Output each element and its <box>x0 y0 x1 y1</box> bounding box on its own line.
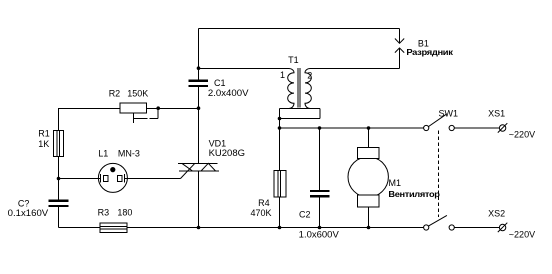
svg-text:~220V: ~220V <box>509 129 535 139</box>
svg-text:В1: В1 <box>418 39 429 49</box>
svg-text:SW1: SW1 <box>439 108 459 118</box>
svg-text:R4: R4 <box>258 198 270 208</box>
svg-text:2: 2 <box>307 70 312 80</box>
svg-text:R1: R1 <box>38 129 50 139</box>
svg-text:180: 180 <box>117 208 132 218</box>
svg-text:C2: C2 <box>299 209 311 219</box>
svg-text:L1: L1 <box>98 149 108 159</box>
svg-text:1K: 1K <box>38 139 49 149</box>
svg-text:MN-3: MN-3 <box>118 149 140 159</box>
svg-text:R3: R3 <box>98 208 110 218</box>
svg-text:T1: T1 <box>288 55 299 65</box>
svg-text:1.0x600V: 1.0x600V <box>299 229 339 239</box>
svg-text:Разрядник: Разрядник <box>406 48 454 57</box>
svg-text:C1: C1 <box>214 78 226 88</box>
svg-text:2.0x400V: 2.0x400V <box>208 88 249 98</box>
svg-text:~220V: ~220V <box>509 229 535 239</box>
svg-text:1: 1 <box>280 70 285 80</box>
svg-text:R2: R2 <box>109 88 121 98</box>
svg-text:XS2: XS2 <box>488 208 505 218</box>
svg-text:KU208G: KU208G <box>209 148 245 158</box>
svg-text:M1: M1 <box>389 178 402 188</box>
svg-text:150K: 150K <box>127 88 148 98</box>
svg-text:Вентилятор: Вентилятор <box>388 190 440 199</box>
svg-text:XS1: XS1 <box>488 108 505 118</box>
svg-text:470K: 470K <box>251 208 272 218</box>
svg-text:0.1x160V: 0.1x160V <box>8 208 49 218</box>
